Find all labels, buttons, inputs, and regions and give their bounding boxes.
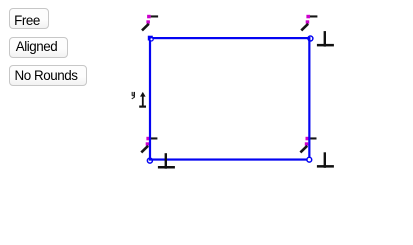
drag indicator label y (left stroke) (131, 92, 135, 99)
node TR (point marker, under lines) (308, 36, 313, 41)
perpendicular symbol TR (317, 31, 334, 46)
round-constraint glyph at corner TL (magenta handles + bar + diagonal) (142, 15, 158, 31)
node BR (point marker, over lines) (307, 157, 312, 162)
label y bowl junction (132, 95, 134, 96)
drag indicator arrow head (139, 92, 146, 108)
node BL (point marker, under lines) (147, 158, 152, 163)
perpendicular symbol BR (317, 152, 334, 168)
drag indicator arrow stem (142, 96, 144, 106)
round-constraint glyph at corner BL (141, 137, 157, 153)
button Free (9, 8, 49, 29)
drag indicator arrow base bar (139, 106, 146, 108)
button Aligned (9, 37, 68, 58)
label y right stroke (134, 92, 135, 97)
rectangle entity (blue sketch lines) (150, 38, 309, 159)
node TL (point marker: filled blob + ring) (148, 36, 153, 41)
round-constraint glyph at corner BR (300, 137, 316, 153)
round-constraint glyph at corner TR (301, 15, 317, 31)
perpendicular symbol BL (158, 153, 175, 169)
button No Rounds (9, 65, 87, 86)
label y descender (131, 96, 135, 99)
